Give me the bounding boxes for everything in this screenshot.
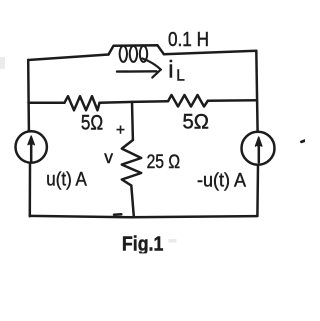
resistor R3 25ohm vertical zigzag [122, 140, 141, 186]
wire middle branch upper [131, 102, 134, 140]
stray tick right edge [302, 141, 306, 142]
wire bottom [30, 216, 258, 217]
wire left lower [29, 163, 32, 217]
svg-text:-u(t) A: -u(t) A [197, 171, 246, 192]
wire top left segment [28, 55, 108, 61]
wire middle center [100, 101, 169, 103]
wire top right segment [164, 51, 256, 54]
svg-text:L: L [176, 68, 185, 85]
current source I1 (u(t) A) [16, 131, 47, 162]
svg-text:+: + [116, 122, 125, 139]
svg-text:Fig.1: Fig.1 [122, 234, 163, 256]
arrow iL under inductor [117, 59, 161, 78]
svg-text:i: i [168, 56, 173, 83]
resistor R2 5ohm zigzag [168, 95, 208, 107]
caption Fig.1 [116, 234, 177, 260]
minus polarity mark below R3 [114, 213, 121, 216]
wire middle right stub [208, 99, 257, 102]
wire left upper [27, 60, 30, 131]
resistor R1 5ohm zigzag [65, 96, 100, 110]
svg-text:0.1 H: 0.1 H [168, 29, 209, 51]
svg-text:5Ω: 5Ω [183, 111, 210, 134]
svg-text:v: v [104, 147, 113, 167]
svg-text:5Ω: 5Ω [81, 112, 103, 135]
scan smudge left edge [0, 57, 5, 69]
wire right upper [256, 51, 257, 132]
inductor L1 [109, 45, 164, 62]
svg-text:u(t) A: u(t) A [46, 170, 87, 191]
wire middle branch lower [131, 186, 134, 217]
current source I2 (-u(t) A) [242, 132, 275, 165]
svg-text:25 Ω: 25 Ω [147, 152, 181, 173]
wire middle left stub [29, 101, 65, 104]
wire right lower [256, 165, 259, 216]
